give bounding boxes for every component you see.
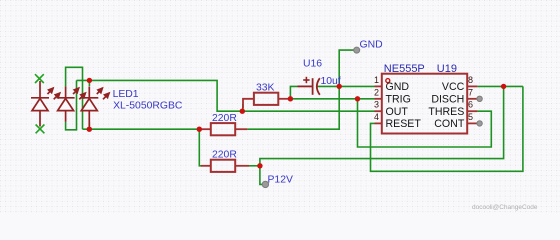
- svg-text:6: 6: [468, 100, 473, 110]
- wire: VCC node E down to P12V rail: [260, 86, 504, 165]
- GND supply pad: [354, 47, 360, 53]
- pin 4 RESET: [374, 112, 421, 130]
- svg-text:VCC: VCC: [442, 81, 465, 93]
- wire: TRIG node D down to THRES loop: [358, 99, 492, 147]
- svg-text:220R: 220R: [212, 113, 237, 124]
- svg-text:U19: U19: [437, 63, 457, 75]
- capacitor U16 polarized: [298, 77, 320, 95]
- svg-text:GND: GND: [360, 40, 383, 51]
- junction dot: node E VCC: [501, 84, 506, 89]
- no-connect X top of LED1: [35, 74, 44, 83]
- wire: bottom rail: [83, 128, 200, 130]
- wire: cap right plate to GND node C: [318, 85, 340, 87]
- svg-text:GND: GND: [386, 81, 410, 93]
- svg-text:THRES: THRES: [428, 106, 464, 118]
- svg-text:3: 3: [374, 100, 379, 110]
- svg-text:33K: 33K: [256, 83, 275, 94]
- LED1: [31, 81, 60, 127]
- junction dot: bottom rail LED3: [87, 127, 92, 132]
- svg-text:P12V: P12V: [268, 175, 293, 186]
- pin 7 DISCH unconnected pad: [431, 87, 482, 105]
- wire: node G down to 220R#2 left: [199, 129, 201, 166]
- wire: 33K right node B up to cap: [290, 86, 297, 98]
- svg-text:LED1: LED1: [113, 89, 139, 100]
- junction dot: node D TRIG: [355, 96, 360, 101]
- junction dot: node G 220R#1 left: [197, 127, 202, 132]
- wire: LED2 bottom stub up to top rail: [66, 80, 77, 129]
- wire: 33K left from node A: [242, 104, 244, 111]
- no-connect X bottom of LED1: [36, 125, 45, 134]
- svg-text:XL-5050RGBC: XL-5050RGBC: [113, 100, 183, 111]
- wire: VCC line pin 8 to corner: [477, 85, 523, 87]
- wire: 220R#1 right to GND riser: [247, 86, 339, 129]
- junction dot: node C GND/cap: [337, 84, 342, 89]
- pin 3 OUT: [374, 100, 408, 118]
- junction dot: node A OUT/33K: [240, 109, 245, 114]
- junction dot: node F P12V: [257, 163, 262, 168]
- wire: LED3 top pin to rail: [88, 80, 90, 86]
- wire: OUT line to pin 3: [242, 110, 374, 112]
- pin 1 GND: [374, 75, 409, 93]
- wire: GND node C up to GND pad: [339, 50, 354, 86]
- wire: LED3 bottom pin to rail: [88, 122, 90, 129]
- op-amp U19 box NE555P: [382, 63, 467, 134]
- pin 2 TRIG: [374, 87, 411, 105]
- wire: RESET loop to VCC: [371, 86, 523, 171]
- svg-text:1: 1: [374, 75, 379, 85]
- wire: node F to P12V pad: [260, 166, 263, 185]
- resistor 220R #2: [201, 160, 249, 172]
- svg-text:8: 8: [468, 75, 473, 85]
- wire: top rail to OUT corner: [77, 80, 243, 111]
- P12V supply pad: [262, 181, 268, 187]
- svg-text:4: 4: [374, 112, 379, 122]
- svg-text:2: 2: [374, 87, 379, 97]
- svg-text:CONT: CONT: [434, 118, 465, 130]
- svg-text:RESET: RESET: [386, 118, 422, 130]
- resistor R 33K: [243, 93, 290, 109]
- wire: node F left to 220R#2: [249, 165, 260, 167]
- svg-text:NE555P: NE555P: [384, 63, 425, 75]
- svg-text:DISCH: DISCH: [431, 94, 464, 106]
- wire: TRIG line node B to pin 2: [290, 98, 374, 100]
- LED3: [80, 86, 109, 126]
- svg-text:OUT: OUT: [386, 106, 409, 118]
- junction dot: top rail LED3: [87, 78, 92, 83]
- pin 6 THRES: [428, 100, 477, 118]
- svg-text:7: 7: [468, 87, 473, 97]
- svg-text:5: 5: [468, 112, 473, 122]
- wire: GND node C to pin 1: [339, 85, 374, 87]
- resistor 220R #1: [201, 123, 247, 135]
- junction dot: node B TRIG/33K: [288, 96, 293, 101]
- wire: LED2 top lead loop to bottom rail: [66, 67, 83, 129]
- LED2: [57, 86, 86, 121]
- svg-text:docooli@ChangeCode: docooli@ChangeCode: [472, 204, 538, 211]
- svg-text:TRIG: TRIG: [386, 94, 411, 106]
- pin 5 CONT unconnected pad: [434, 112, 482, 130]
- pin 8 VCC: [442, 75, 477, 93]
- svg-text:220R: 220R: [212, 150, 237, 161]
- svg-text:U16: U16: [303, 59, 322, 70]
